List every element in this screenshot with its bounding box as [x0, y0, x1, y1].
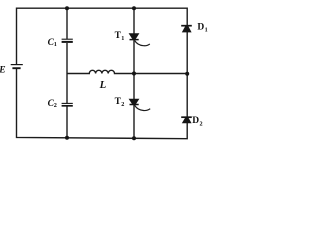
svg-text:1: 1 [54, 41, 57, 48]
svg-text:E: E [0, 66, 6, 76]
svg-text:2: 2 [121, 101, 124, 108]
svg-text:D: D [192, 116, 199, 126]
svg-text:L: L [99, 79, 107, 91]
svg-text:1: 1 [205, 26, 208, 33]
svg-text:1: 1 [121, 35, 124, 42]
svg-text:D: D [197, 23, 204, 33]
svg-text:2: 2 [200, 120, 203, 127]
svg-text:2: 2 [54, 102, 57, 109]
